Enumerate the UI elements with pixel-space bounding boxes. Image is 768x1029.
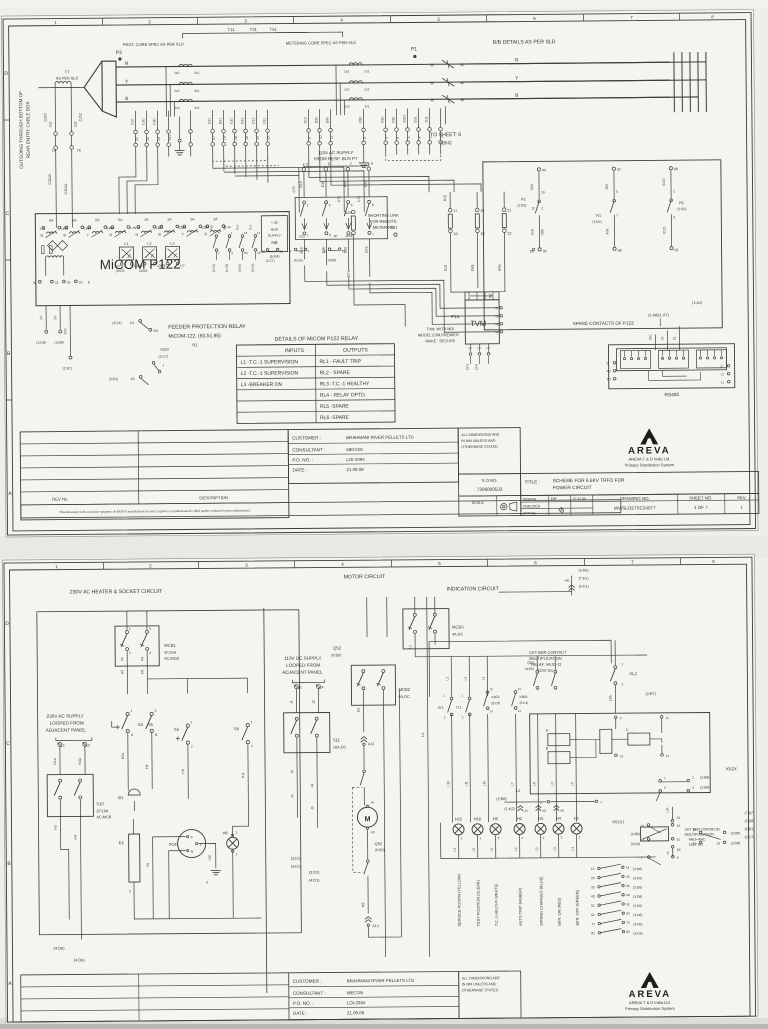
svg-text:D51: D51 (218, 118, 222, 124)
svg-text:ADJACENT PANEL: ADJACENT PANEL (282, 670, 323, 675)
svg-text:5: 5 (616, 190, 618, 194)
left CT terminal lower stubs (135, 147, 137, 157)
shorting link terminals A23 A24 (351, 210, 355, 214)
motor circuit enclosure (261, 597, 432, 998)
svg-text:(3:C6): (3:C6) (631, 842, 640, 846)
svg-text:20: 20 (480, 232, 484, 236)
svg-text:A24: A24 (345, 234, 351, 238)
svg-text:110V DC: 110V DC (537, 668, 553, 673)
svg-text:D76: D76 (365, 246, 369, 253)
svg-text:MiCOM-122, (50,51,95): MiCOM-122, (50,51,95) (168, 333, 221, 339)
svg-text:BKR. OFF (GREEN): BKR. OFF (GREEN) (575, 889, 580, 925)
left CT terminal bundle (134, 111, 136, 130)
svg-text:1.52: 1.52 (180, 225, 186, 229)
svg-text:SHEET NO.: SHEET NO. (689, 495, 713, 500)
svg-text:18: 18 (244, 231, 248, 235)
svg-text:C112: C112 (78, 113, 82, 121)
svg-text:4A,DC: 4A,DC (452, 632, 463, 636)
sheet 1 paper (2, 10, 759, 538)
svg-text:3: 3 (407, 136, 411, 138)
svg-text:L2: L2 (535, 847, 539, 851)
svg-text:19: 19 (541, 190, 545, 194)
svg-text:MULTIPLICATION: MULTIPLICATION (529, 656, 562, 661)
svg-text:X97: X97 (605, 184, 609, 190)
chevrons above lamps (518, 806, 524, 808)
svg-text:Z2: Z2 (660, 336, 664, 340)
sheet 2 paper (2, 554, 758, 1022)
switch S4 (126, 712, 129, 715)
lamp H6 wires (232, 798, 248, 836)
sheet 2 zone ticks (102, 562, 104, 569)
lamps enclosure (441, 821, 656, 859)
svg-text:IN MM UNLESS AND: IN MM UNLESS AND (461, 439, 496, 443)
relay contact mid (600, 729, 612, 753)
svg-text:E1: E1 (119, 840, 125, 845)
svg-text:2x1: 2x1 (194, 106, 200, 110)
svg-text:Z1: Z1 (53, 316, 57, 320)
svg-text:1x2: 1x2 (344, 88, 350, 92)
svg-text:B/B DETAILS AS PER SLD: B/B DETAILS AS PER SLD (493, 39, 556, 46)
svg-text:LOOPED FROM: LOOPED FROM (50, 720, 84, 725)
contact K95X (486, 691, 489, 694)
svg-text:A12: A12 (368, 742, 374, 746)
svg-text:H1A: H1A (53, 757, 57, 764)
svg-text:C30: C30 (141, 118, 145, 124)
svg-text:R: R (515, 58, 519, 64)
svg-text:X21: X21 (168, 134, 172, 140)
svg-text:S6: S6 (234, 726, 240, 731)
svg-text:»: » (460, 97, 464, 104)
svg-text:15: 15 (256, 136, 260, 140)
node P2 (119, 58, 121, 60)
svg-text:«: « (430, 80, 434, 87)
svg-text:DATE :: DATE : (293, 1011, 308, 1016)
svg-text:L7: L7 (510, 782, 514, 786)
svg-text:1A: 1A (190, 217, 195, 221)
wire C112A down (71, 149, 74, 227)
sheet 1 zone ticks top (102, 18, 104, 25)
motor isolating contact (363, 770, 366, 773)
svg-text:2x2: 2x2 (174, 106, 180, 110)
TVM meter box P15 (465, 300, 499, 344)
indication right boundary wires (574, 656, 576, 696)
RS485 connector box (608, 344, 734, 389)
svg-text:3: 3 (299, 686, 301, 690)
svg-text:S4: S4 (138, 722, 144, 727)
svg-text:B93: B93 (498, 264, 502, 270)
svg-text:16: 16 (234, 136, 238, 140)
wires from 110V AC fuse switches to TVM (304, 265, 306, 269)
svg-text:3: 3 (306, 162, 308, 166)
svg-text:6A,DC: 6A,DC (399, 695, 410, 699)
svg-text:N: N (135, 233, 138, 237)
svg-text:OUTGOING THROUGH BOTTOM OF: OUTGOING THROUGH BOTTOM OF (18, 91, 24, 169)
svg-text:AC,MCB: AC,MCB (164, 657, 179, 661)
svg-text:ALL DIMENSIONS ARE: ALL DIMENSIONS ARE (461, 433, 500, 437)
relay output far right contact (328, 248, 331, 251)
svg-text:MECON: MECON (346, 447, 362, 452)
svg-text:Vn: Vn (495, 330, 499, 334)
dashed link Q52 (352, 787, 363, 872)
svg-text:X95: X95 (540, 229, 544, 235)
svg-text:13: 13 (489, 687, 493, 691)
svg-text:(2:B8): (2:B8) (496, 797, 507, 801)
svg-text:SPARE CONTACTS OF P122: SPARE CONTACTS OF P122 (573, 321, 635, 327)
relay output RL1 contact (294, 248, 297, 251)
terminal C110 drop (54, 110, 56, 132)
svg-text:H2: H2 (517, 816, 523, 821)
AREVA logo sheet1 (640, 428, 658, 444)
svg-text:SCALE: SCALE (472, 501, 485, 505)
svg-text:11: 11 (330, 136, 334, 140)
svg-text:OTHERWISE STATED.: OTHERWISE STATED. (461, 445, 498, 449)
svg-text:H4: H4 (74, 835, 78, 839)
svg-text:J4: J4 (310, 784, 314, 788)
svg-text:33: 33 (591, 885, 595, 889)
svg-text:7: 7 (350, 162, 352, 166)
svg-text:+ 33: + 33 (271, 221, 278, 225)
wire to sheet 6 (444, 106, 446, 124)
svg-text:9: 9 (308, 137, 312, 139)
wire L7 long (434, 634, 436, 645)
svg-text:18: 18 (717, 841, 721, 845)
svg-text:RL1 - FAULT TRIP: RL1 - FAULT TRIP (320, 359, 362, 365)
svg-text:(1:D8): (1:D8) (225, 264, 229, 272)
svg-text:D93: D93 (471, 264, 475, 271)
indication verticals (450, 657, 452, 697)
svg-text:C: C (626, 728, 629, 732)
svg-text:(3:D8): (3:D8) (633, 885, 642, 889)
heater zone bottom bus (153, 917, 261, 920)
svg-text:C110A: C110A (48, 173, 52, 184)
metering links 17-18 19-20 21-22 (448, 208, 452, 212)
svg-text:H9: H9 (146, 863, 150, 867)
svg-text:FOR REMOTE: FOR REMOTE (370, 219, 397, 224)
svg-text:(4:C5): (4:C5) (116, 269, 125, 273)
svg-text:110V AC SUPPLY: 110V AC SUPPLY (318, 150, 353, 155)
svg-text:2: 2 (88, 743, 90, 747)
svg-text:2x1: 2x1 (194, 71, 200, 75)
aux contact 51-52 (598, 904, 600, 906)
svg-text:18: 18 (453, 232, 457, 236)
svg-text:S.O.NO.: S.O.NO. (482, 478, 498, 483)
contact K86X (514, 691, 517, 694)
sheet 2 outer border (4, 557, 756, 1022)
metering CT row 2 (349, 81, 362, 83)
svg-text:Primary Distribution System: Primary Distribution System (625, 1006, 675, 1011)
svg-text:19: 19 (480, 209, 484, 213)
spare contact column 1 (537, 168, 540, 171)
svg-text:2x1: 2x1 (194, 89, 200, 93)
svg-text:H5: H5 (120, 657, 124, 661)
svg-text:AS PER SLD: AS PER SLD (56, 76, 79, 80)
svg-text:L3: L3 (486, 346, 490, 350)
right group earth (363, 155, 365, 163)
svg-text:PROT. CORE SPEC AS PER SLD: PROT. CORE SPEC AS PER SLD (123, 41, 184, 47)
arrow A12 (361, 737, 367, 740)
svg-text:E: E (721, 364, 723, 368)
svg-text:J2: J2 (312, 700, 316, 704)
svg-text:CHECKED: CHECKED (523, 504, 541, 508)
svg-text:R: R (204, 232, 207, 236)
svg-text:110V DC SUPPLY: 110V DC SUPPLY (284, 656, 321, 661)
wires under relay left (45, 306, 47, 330)
svg-text:H9: H9 (145, 764, 149, 768)
svg-text:L24: L24 (115, 264, 120, 268)
relay coils box (530, 713, 711, 794)
svg-text:(6:E6): (6:E6) (331, 653, 342, 657)
svg-text:94: 94 (542, 168, 546, 172)
svg-text:(3:D8): (3:D8) (633, 904, 642, 908)
lamps bottom bus (441, 857, 656, 859)
heater bottom wire (134, 909, 153, 919)
svg-text:D: D (4, 71, 8, 77)
relay coil C (628, 733, 650, 745)
svg-text:AREVA: AREVA (629, 989, 672, 1000)
svg-text:Z9C: Z9C (648, 334, 652, 341)
svg-text:CKT BKR CONTACT: CKT BKR CONTACT (529, 650, 567, 655)
svg-text:FROM RESP. BUS PT: FROM RESP. BUS PT (314, 156, 358, 161)
svg-text:R1: R1 (192, 342, 198, 347)
wires H1A H2A (59, 747, 61, 775)
svg-text:14: 14 (626, 866, 630, 870)
svg-text:OTHERWISE STATED.: OTHERWISE STATED. (462, 988, 499, 992)
svg-text:(1:A8)(1:A7): (1:A8)(1:A7) (648, 313, 669, 317)
svg-text:D13: D13 (444, 265, 448, 272)
svg-text:T31: T31 (250, 27, 258, 32)
svg-text:AREVA T & D India Ltd.: AREVA T & D India Ltd. (629, 1000, 671, 1005)
svg-text:SOC: SOC (169, 842, 178, 847)
svg-text:T7: T7 (65, 69, 71, 74)
svg-text:INDICATION CIRCUIT: INDICATION CIRCUIT (447, 586, 500, 592)
svg-text:H6: H6 (223, 830, 229, 835)
svg-text:CUSTOMER :: CUSTOMER : (292, 435, 321, 440)
svg-text:RL2 - SPARE: RL2 - SPARE (320, 370, 351, 376)
MCB1 wires (126, 611, 128, 631)
bus Y (116, 80, 670, 85)
svg-text:(4:B6): (4:B6) (631, 832, 640, 836)
metering CT row 3 (349, 98, 362, 100)
svg-text:27.11.09: 27.11.09 (573, 497, 586, 501)
svg-text:MCB1: MCB1 (164, 643, 176, 648)
svg-text:D81: D81 (391, 116, 395, 122)
svg-text:E: E (607, 361, 609, 365)
svg-text:P2: P2 (116, 50, 122, 56)
svg-text:R: R (109, 233, 112, 237)
svg-text:(3:B8): (3:B8) (700, 786, 709, 790)
svg-text:97: 97 (617, 168, 621, 172)
svg-text:L1: L1 (445, 677, 449, 681)
svg-text:RL3 -T.C.-1 HEALTHY: RL3 -T.C.-1 HEALTHY (320, 381, 370, 387)
svg-text:21.09.09: 21.09.09 (347, 1010, 365, 1015)
node P1 (414, 55, 416, 57)
svg-text:D11: D11 (262, 118, 266, 124)
svg-text:(3:D8): (3:D8) (633, 922, 642, 926)
svg-text:L36: L36 (161, 264, 166, 268)
svg-text:(5:C8): (5:C8) (251, 264, 255, 272)
customer block sheet2 (289, 971, 459, 1019)
svg-text:C51: C51 (207, 118, 211, 124)
svg-text:N: N (40, 234, 43, 238)
svg-text:(4:D6): (4:D6) (74, 957, 86, 962)
svg-text:1x2: 1x2 (344, 105, 350, 109)
relay coil A (548, 734, 570, 746)
relay drawn CT symbol left (47, 240, 67, 250)
svg-text:L2: L2 (453, 848, 457, 852)
svg-text:4: 4 (149, 651, 151, 655)
svg-text:110: 110 (371, 830, 376, 834)
svg-text:(7:D1): (7:D1) (579, 576, 589, 580)
svg-text:(1:C7): (1:C7) (266, 259, 275, 263)
svg-text:16A,DC: 16A,DC (333, 745, 347, 749)
svg-text:5A: 5A (118, 218, 123, 222)
MCB3 top wires (414, 597, 416, 614)
svg-text:TEST POSITION (CLEAR): TEST POSITION (CLEAR) (475, 879, 480, 926)
svg-text:L3: L3 (550, 782, 554, 786)
svg-text:D10: D10 (303, 117, 307, 123)
svg-text:A13: A13 (372, 924, 378, 928)
svg-text:«: « (430, 62, 434, 69)
svg-text:2: 2 (129, 651, 131, 655)
motor M (357, 807, 377, 827)
svg-text:L1: L1 (481, 676, 485, 680)
customer block (288, 428, 458, 483)
left empty revision rows sheet2 (21, 985, 289, 987)
svg-text:1A: 1A (213, 217, 218, 221)
svg-text:1: 1 (621, 662, 623, 666)
right bus riser lines (673, 52, 676, 112)
svg-text:T11: T11 (228, 27, 236, 32)
110V AC supply bracket (304, 163, 369, 167)
svg-text:L11: L11 (464, 781, 468, 786)
svg-text:R1: R1 (596, 214, 601, 218)
spare contact column 2 (612, 167, 615, 170)
svg-text:L5: L5 (570, 782, 574, 786)
svg-text:2: 2 (251, 744, 253, 748)
svg-text:BRAHMANI RIVER PELLETS LTD: BRAHMANI RIVER PELLETS LTD (346, 434, 414, 440)
bracket T11 T31 T51 (183, 32, 343, 38)
K52X mid right contacts (699, 831, 702, 834)
title block sheet 1 (20, 430, 289, 520)
S11 outgoing (296, 738, 299, 818)
svg-text:16: 16 (257, 251, 261, 255)
svg-text:1S2: 1S2 (73, 121, 77, 127)
svg-text:L28: L28 (138, 264, 143, 268)
svg-text:5A: 5A (49, 219, 54, 223)
spare contact column 3 (669, 167, 672, 170)
relay internal wires (615, 729, 617, 733)
svg-text:MVISLO27SC34077: MVISLO27SC34077 (614, 505, 656, 510)
relay box pins (614, 716, 617, 719)
svg-text:L3: L3 (571, 847, 575, 851)
svg-text:(6:B7): (6:B7) (238, 264, 242, 272)
svg-text:2x2: 2x2 (174, 89, 180, 93)
svg-text:3: 3 (673, 215, 675, 219)
svg-text:A2: A2 (677, 848, 681, 852)
svg-text:E35: E35 (321, 181, 325, 187)
sheet 1 inner border (9, 20, 750, 531)
svg-text:22: 22 (507, 232, 511, 236)
svg-text:(1:B7): (1:B7) (63, 366, 72, 370)
svg-text:1.56: 1.56 (134, 226, 140, 230)
svg-text:2: 2 (621, 682, 623, 686)
svg-text:3: 3 (329, 233, 331, 237)
contact K2 (139, 319, 142, 322)
svg-text:[5:C3]: [5:C3] (492, 701, 501, 705)
svg-text:(3:D2): (3:D2) (309, 871, 320, 875)
Q52 aux contacts middle (536, 670, 539, 673)
svg-text:(4:C4): (4:C4) (294, 258, 303, 262)
svg-text:IN MM UNLESS AND: IN MM UNLESS AND (462, 982, 497, 986)
svg-text:BKR. ON (RED): BKR. ON (RED) (557, 897, 562, 926)
bus R (116, 62, 670, 67)
svg-text:37: 37 (324, 249, 328, 253)
svg-text:5A: 5A (95, 218, 100, 222)
bus stub left of arrow (73, 86, 84, 88)
MCB2 box (351, 665, 395, 705)
svg-text:B1: B1 (118, 795, 124, 800)
svg-text:L9: L9 (666, 851, 670, 855)
svg-text:2x2: 2x2 (174, 71, 180, 75)
svg-text:7: 7 (372, 233, 374, 237)
aux supply box (261, 216, 287, 252)
svg-text:1: 1 (673, 189, 675, 193)
svg-text:RL8: RL8 (209, 225, 213, 231)
scale box (459, 496, 521, 517)
svg-text:DP: DP (551, 496, 557, 501)
svg-text:D90: D90 (325, 117, 329, 123)
svg-text:RL2: RL2 (271, 241, 277, 245)
wire to K52X1 from lamps area (603, 836, 639, 838)
TVM terminals Vr Vy Vb Vn (500, 306, 503, 309)
svg-text:52: 52 (626, 902, 630, 906)
svg-text:(4:D1): (4:D1) (309, 879, 320, 883)
svg-text:71: 71 (591, 922, 595, 926)
aux contact 43-44 (598, 895, 600, 897)
svg-text:X24: X24 (530, 184, 534, 190)
svg-text:H3: H3 (538, 816, 544, 821)
svg-text:K52X1: K52X1 (612, 819, 625, 824)
svg-text:»: » (460, 80, 464, 87)
harness from CT terminals to MiCOM P122 (119, 157, 136, 214)
svg-text:H6: H6 (140, 657, 144, 661)
svg-text:1: 1 (63, 744, 65, 748)
svg-text:D11: D11 (424, 116, 428, 122)
svg-text:L10: L10 (446, 781, 450, 787)
svg-text:A23: A23 (345, 211, 351, 215)
svg-text:P: P (191, 836, 193, 840)
svg-text:L1 -T.C.-1 SUPERVISION: L1 -T.C.-1 SUPERVISION (241, 359, 299, 366)
RS485 right pins (727, 364, 730, 367)
svg-text:CP1: CP1 (466, 364, 470, 370)
svg-text:10: 10 (620, 754, 624, 758)
svg-text:CP1: CP1 (475, 363, 479, 369)
svg-text:S5: S5 (148, 722, 154, 727)
wire D71 (353, 235, 405, 327)
svg-text:1A: 1A (144, 218, 149, 222)
svg-text:98: 98 (618, 249, 622, 253)
svg-text:P.O. NO. :: P.O. NO. : (293, 1001, 314, 1006)
svg-text:111: 111 (370, 800, 375, 804)
socket SOC (178, 829, 206, 857)
svg-text:L3 -BREAKER ON: L3 -BREAKER ON (241, 382, 283, 388)
svg-text:6: 6 (396, 137, 400, 139)
svg-text:C112A: C112A (64, 183, 68, 194)
svg-text:AUTO TRIP (AMBER): AUTO TRIP (AMBER) (518, 887, 523, 926)
svg-text:(3:C8): (3:C8) (633, 931, 642, 935)
svg-text:MECON: MECON (347, 990, 363, 995)
svg-text:110V DC: 110V DC (689, 843, 704, 847)
